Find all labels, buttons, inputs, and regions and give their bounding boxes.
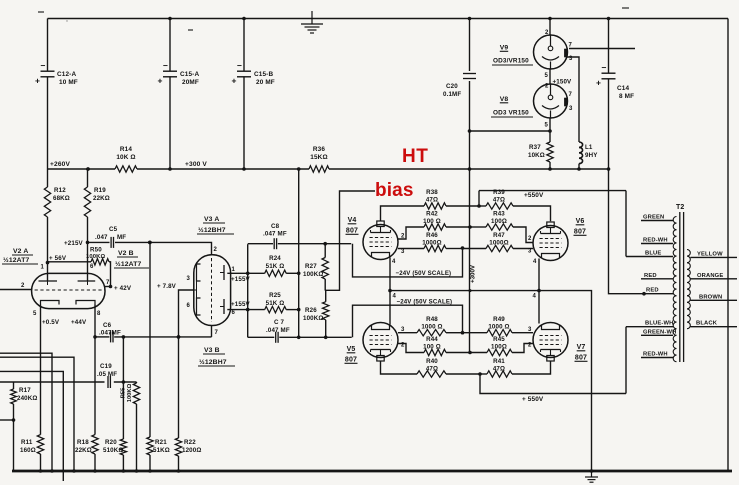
wire lead BLACK xyxy=(691,321,738,327)
wire V4 cathode pin 4 xyxy=(388,258,396,293)
tube V7 807 xyxy=(533,323,568,362)
wire cathode pin 5 xyxy=(33,305,87,435)
wire bottom grid feed xyxy=(353,305,465,337)
wire V9 pin7 lead xyxy=(569,48,635,50)
svg-text:RED: RED xyxy=(646,288,659,294)
resistor R17 xyxy=(0,382,38,471)
resistor R45 xyxy=(470,336,533,356)
svg-text:+300V: +300V xyxy=(470,264,477,283)
label V5 xyxy=(345,346,358,364)
svg-text:47Ω: 47Ω xyxy=(426,197,438,204)
wire V3 plate pin 1 xyxy=(227,272,250,284)
wire plate supply column xyxy=(247,244,249,337)
capacitor C5 xyxy=(88,226,150,248)
svg-text:½12AT7: ½12AT7 xyxy=(115,260,142,268)
svg-text:+300 V: +300 V xyxy=(185,161,207,168)
svg-text:8 MF: 8 MF xyxy=(619,93,634,100)
svg-text:+260V: +260V xyxy=(50,161,70,168)
svg-text:.047 MF: .047 MF xyxy=(266,327,290,334)
svg-text:RED-WH: RED-WH xyxy=(643,352,668,358)
wire top grid feed xyxy=(353,244,465,277)
svg-text:+: + xyxy=(596,78,601,88)
svg-text:68KΩ: 68KΩ xyxy=(53,195,70,202)
transformer T2 core xyxy=(676,204,684,362)
wire +550V bottom rail xyxy=(480,374,626,403)
svg-text:−24V (50V SCALE): −24V (50V SCALE) xyxy=(397,299,453,306)
svg-text:807: 807 xyxy=(345,357,357,364)
wire bias feed xyxy=(325,191,375,290)
svg-text:R11: R11 xyxy=(21,439,33,446)
svg-text:BLUE: BLUE xyxy=(645,251,661,257)
label V7 xyxy=(575,344,588,362)
svg-text:1000 Ω: 1000 Ω xyxy=(488,323,509,330)
svg-text:R19: R19 xyxy=(94,187,106,194)
resistor R22 xyxy=(175,335,201,473)
svg-text:3: 3 xyxy=(401,327,405,333)
svg-text:+0.5V: +0.5V xyxy=(42,319,60,326)
svg-text:R38: R38 xyxy=(426,189,438,196)
svg-text:47Ω: 47Ω xyxy=(493,197,505,204)
svg-text:R47: R47 xyxy=(493,232,505,239)
svg-text:R43: R43 xyxy=(493,211,505,218)
svg-text:C8: C8 xyxy=(271,223,280,230)
wire lead RED-WH bottom xyxy=(641,352,673,358)
svg-text:1000Ω: 1000Ω xyxy=(489,240,508,247)
svg-text:R46: R46 xyxy=(426,232,438,239)
svg-text:10 MF: 10 MF xyxy=(59,79,78,86)
wire stub B xyxy=(0,357,76,473)
node pin 7 +42V xyxy=(105,280,132,292)
svg-text:V3 B: V3 B xyxy=(204,347,220,354)
resistor R48 xyxy=(398,316,462,336)
tube V2 12AT7 xyxy=(32,273,105,308)
svg-text:BROWN: BROWN xyxy=(699,294,722,300)
svg-text:YELLOW: YELLOW xyxy=(697,251,723,257)
resistor R21 xyxy=(147,241,170,473)
svg-text:R40: R40 xyxy=(426,358,438,365)
svg-text:2: 2 xyxy=(528,343,532,349)
wire V2A plate pin 1 xyxy=(41,263,48,281)
wire +300V column to V3 loads xyxy=(297,169,301,339)
svg-text:ORANGE: ORANGE xyxy=(697,273,723,279)
wire V3A grid feed xyxy=(148,241,212,255)
label V3A xyxy=(197,216,234,234)
wire V2B plate drop xyxy=(87,242,89,281)
svg-text:R21: R21 xyxy=(155,439,167,446)
svg-text:1000Ω: 1000Ω xyxy=(422,240,441,247)
resistor R19 xyxy=(84,167,110,242)
svg-text:RED: RED xyxy=(644,273,657,279)
tube V3 12BH7 xyxy=(194,255,231,326)
svg-text:2: 2 xyxy=(528,236,532,242)
resistor R18 xyxy=(75,337,98,473)
ground stub xyxy=(585,471,598,482)
node +56V xyxy=(46,255,67,264)
wire V7 pin 4 xyxy=(533,291,540,324)
label V3 pins xyxy=(187,247,236,336)
svg-text:C6: C6 xyxy=(103,322,112,329)
svg-text:−: − xyxy=(602,63,607,73)
svg-text:−: − xyxy=(41,61,46,71)
wire lead YELLOW xyxy=(691,251,738,257)
capacitor C6 xyxy=(93,322,211,342)
svg-text:+215V: +215V xyxy=(64,240,84,247)
label -24V measure 1 xyxy=(396,270,452,277)
svg-text:RED-WH: RED-WH xyxy=(643,238,668,244)
svg-text:1000 Ω: 1000 Ω xyxy=(421,323,442,330)
wire +300V screen column xyxy=(468,169,476,354)
svg-text:R50: R50 xyxy=(90,247,102,254)
svg-text:5: 5 xyxy=(33,311,37,317)
resistor R50 xyxy=(48,247,110,271)
svg-text:2: 2 xyxy=(401,343,405,349)
label V3B xyxy=(198,347,235,366)
tube V4 807 xyxy=(363,221,398,260)
wire cathode pin 8 xyxy=(95,305,101,337)
wire V3 pin 7 stub xyxy=(211,326,213,337)
svg-text:C15-A: C15-A xyxy=(180,71,199,78)
scan marks xyxy=(38,8,629,30)
resistor R36 xyxy=(309,146,329,172)
capacitor C7 xyxy=(248,319,352,343)
svg-text:7: 7 xyxy=(569,43,573,49)
svg-text:R48: R48 xyxy=(426,316,438,323)
resistor R44 xyxy=(398,336,470,356)
svg-text:R17: R17 xyxy=(19,387,31,394)
resistor R47 xyxy=(462,232,533,255)
svg-text:R20: R20 xyxy=(105,439,117,446)
svg-text:3: 3 xyxy=(401,249,405,255)
svg-text:7: 7 xyxy=(569,92,573,98)
wire bottom ground bus xyxy=(12,470,732,473)
svg-text:GREEN: GREEN xyxy=(643,215,664,221)
wire V8 pin5 node xyxy=(468,118,552,142)
svg-text:240KΩ: 240KΩ xyxy=(17,395,38,402)
svg-text:+550V: +550V xyxy=(524,192,544,199)
svg-text:7: 7 xyxy=(215,330,219,336)
wire V3 cathode +7.8V xyxy=(157,283,194,337)
svg-text:MF: MF xyxy=(117,234,126,241)
wire lead RED-WH xyxy=(641,238,673,244)
svg-text:R25: R25 xyxy=(269,292,281,299)
wire V9 pin3 to V8 pin7 xyxy=(567,57,579,97)
svg-text:R12: R12 xyxy=(54,187,66,194)
label V4 xyxy=(346,217,359,235)
svg-text:.047: .047 xyxy=(95,234,108,241)
svg-text:½12BH7: ½12BH7 xyxy=(198,226,226,234)
svg-text:V5: V5 xyxy=(347,346,356,353)
wire lead BROWN xyxy=(691,294,738,300)
svg-text:47Ω: 47Ω xyxy=(426,365,438,372)
svg-text:+44V: +44V xyxy=(71,319,87,326)
wire lead GREEN xyxy=(641,215,673,221)
capacitor C20 xyxy=(443,19,476,170)
svg-text:100KΩ: 100KΩ xyxy=(303,315,324,322)
node +215V xyxy=(64,240,89,247)
svg-text:+: + xyxy=(232,76,237,86)
resistor R26 xyxy=(303,290,329,339)
svg-text:47Ω: 47Ω xyxy=(493,365,505,372)
wire stub A xyxy=(0,353,54,473)
svg-text:V6: V6 xyxy=(576,218,585,225)
svg-text:OD3 VR150: OD3 VR150 xyxy=(493,110,529,117)
svg-text:−24V (50V SCALE): −24V (50V SCALE) xyxy=(396,270,452,277)
svg-text:20 MF: 20 MF xyxy=(256,79,275,86)
wire R50 to grid pin 7 xyxy=(109,262,111,287)
svg-text:2: 2 xyxy=(21,283,25,289)
label V6 xyxy=(574,218,587,236)
svg-text:R14: R14 xyxy=(120,146,132,153)
svg-text:R49: R49 xyxy=(493,316,505,323)
svg-text:0.1MF: 0.1MF xyxy=(443,91,461,98)
capacitor C15-A xyxy=(158,19,200,171)
tube V9 OD3/VR150 xyxy=(492,19,573,80)
svg-text:22KΩ: 22KΩ xyxy=(75,447,92,454)
svg-text:BLUE-WH: BLUE-WH xyxy=(645,321,673,327)
svg-text:R18: R18 xyxy=(77,439,89,446)
label -24V measure 2 xyxy=(397,299,453,306)
svg-text:V4: V4 xyxy=(348,217,357,224)
svg-text:R22: R22 xyxy=(184,439,196,446)
wire right edge rail xyxy=(727,19,729,472)
wire input grid pin 2 xyxy=(0,283,32,290)
svg-text:9HY: 9HY xyxy=(585,152,598,159)
svg-text:V2 A: V2 A xyxy=(13,248,28,255)
svg-text:4: 4 xyxy=(392,259,396,265)
label V2A xyxy=(2,248,38,264)
label HT (red) xyxy=(402,146,428,167)
svg-text:+: + xyxy=(35,76,40,86)
svg-text:R24: R24 xyxy=(269,255,281,262)
resistor R20 xyxy=(103,382,127,473)
svg-text:½12AT7: ½12AT7 xyxy=(3,256,30,264)
svg-text:807: 807 xyxy=(346,228,358,235)
svg-text:5: 5 xyxy=(545,73,549,79)
svg-text:T2: T2 xyxy=(676,204,684,211)
wire +300V bus xyxy=(48,161,609,171)
resistor R43 xyxy=(470,211,533,243)
svg-text:1200Ω: 1200Ω xyxy=(182,447,201,454)
svg-text:51K Ω: 51K Ω xyxy=(266,263,285,270)
tube V6 807 xyxy=(533,222,568,261)
tube V5 807 xyxy=(363,323,398,362)
svg-text:51KΩ: 51KΩ xyxy=(153,447,170,454)
svg-text:7: 7 xyxy=(106,280,110,286)
resistor R37 xyxy=(528,142,553,169)
svg-text:V2 B: V2 B xyxy=(118,250,134,257)
svg-text:100 Ω: 100 Ω xyxy=(423,218,441,225)
svg-text:4: 4 xyxy=(533,259,537,265)
svg-text:100Ω: 100Ω xyxy=(491,344,507,351)
capacitor C15-B xyxy=(232,19,275,171)
transformer T2 primary winding xyxy=(673,217,676,362)
svg-text:−: − xyxy=(237,61,242,71)
svg-text:C15-B: C15-B xyxy=(254,71,273,78)
svg-text:510KΩ: 510KΩ xyxy=(103,447,124,454)
svg-text:+ 7.8V: + 7.8V xyxy=(157,283,177,290)
capacitor C8 xyxy=(248,223,352,249)
svg-text:100KΩ: 100KΩ xyxy=(303,271,324,278)
resistor R24 xyxy=(248,255,301,277)
wire V6 cathode pin 4 xyxy=(533,259,541,293)
svg-text:C19: C19 xyxy=(100,363,112,370)
wire stub C xyxy=(0,371,63,481)
svg-text:2: 2 xyxy=(214,247,218,253)
wire V3 plate pin 6 xyxy=(227,301,250,311)
svg-text:807: 807 xyxy=(575,355,587,362)
svg-text:15KΩ: 15KΩ xyxy=(310,154,327,161)
svg-text:.05 MF: .05 MF xyxy=(97,371,117,378)
svg-text:R39: R39 xyxy=(493,189,505,196)
tube V8 OD3 VR150 xyxy=(491,69,573,129)
svg-text:2: 2 xyxy=(545,84,549,90)
resistor R27 xyxy=(303,244,328,291)
svg-text:R36: R36 xyxy=(313,146,325,153)
svg-text:8: 8 xyxy=(97,311,101,317)
svg-text:R55: R55 xyxy=(121,387,127,398)
svg-text:−: − xyxy=(163,61,168,71)
ground xyxy=(301,11,323,33)
svg-text:3: 3 xyxy=(187,276,191,282)
svg-text:GREEN-WH: GREEN-WH xyxy=(643,330,676,336)
svg-text:V9: V9 xyxy=(500,45,509,52)
wire top bus xyxy=(48,17,729,21)
svg-text:C 7: C 7 xyxy=(274,319,284,326)
resistor R25 xyxy=(248,292,301,313)
svg-text:R26: R26 xyxy=(305,307,317,314)
svg-text:100Ω: 100Ω xyxy=(491,218,507,225)
svg-text:C20: C20 xyxy=(446,83,458,90)
resistor R42 xyxy=(398,211,472,240)
svg-text:R42: R42 xyxy=(426,211,438,218)
resistor R46 xyxy=(398,232,462,255)
svg-text:R45: R45 xyxy=(493,336,505,343)
resistor R40 xyxy=(381,358,482,377)
svg-text:OD3/VR150: OD3/VR150 xyxy=(493,58,529,65)
svg-text:6: 6 xyxy=(90,264,94,270)
svg-text:22KΩ: 22KΩ xyxy=(93,195,110,202)
svg-text:5: 5 xyxy=(545,123,549,129)
svg-text:+ 42V: + 42V xyxy=(114,285,132,292)
svg-text:HT: HT xyxy=(402,146,428,167)
svg-text:1: 1 xyxy=(232,267,236,273)
resistor R12 xyxy=(44,169,70,263)
resistor R14 xyxy=(115,146,137,172)
svg-text:+150V: +150V xyxy=(553,79,573,86)
wire V5 pin 4 xyxy=(390,291,397,325)
svg-text:+: + xyxy=(158,76,163,86)
svg-text:R41: R41 xyxy=(493,358,505,365)
svg-text:6: 6 xyxy=(232,310,236,316)
svg-text:V3 A: V3 A xyxy=(204,216,219,223)
svg-text:1: 1 xyxy=(41,265,45,271)
wire lead BLUE from +550V xyxy=(626,191,673,257)
svg-text:C5: C5 xyxy=(109,226,118,233)
svg-text:160Ω: 160Ω xyxy=(20,447,36,454)
svg-text:6: 6 xyxy=(187,303,191,309)
svg-text:½12BH7: ½12BH7 xyxy=(199,358,227,366)
inductor L1 xyxy=(579,97,598,169)
svg-text:bias: bias xyxy=(375,180,414,201)
svg-text:10KΩ: 10KΩ xyxy=(528,152,545,159)
resistor R55 xyxy=(121,382,140,473)
wire lead BLUE-WH from +550V xyxy=(626,321,673,394)
svg-text:.047 MF: .047 MF xyxy=(263,231,287,238)
svg-text:4: 4 xyxy=(533,294,537,300)
wire cathode return xyxy=(390,289,593,473)
capacitor C14 xyxy=(596,17,634,290)
svg-text:3: 3 xyxy=(528,327,532,333)
resistor R38 xyxy=(381,189,480,221)
svg-text:L1: L1 xyxy=(585,144,593,151)
svg-text:20MF: 20MF xyxy=(182,79,199,86)
svg-text:+ 550V: + 550V xyxy=(522,396,544,403)
label bias (red) xyxy=(375,180,414,201)
wire lead GREEN-WH xyxy=(641,330,676,336)
svg-text:BLACK: BLACK xyxy=(696,321,718,327)
wire lead RED center tap xyxy=(609,288,674,296)
resistor R41 xyxy=(480,358,551,377)
svg-text:807: 807 xyxy=(574,229,586,236)
svg-text:2: 2 xyxy=(401,234,405,240)
resistor R11 xyxy=(20,435,44,473)
svg-text:C14: C14 xyxy=(617,85,629,92)
capacitor C12-A xyxy=(35,19,78,170)
wire lead RED xyxy=(641,273,673,279)
svg-text:R37: R37 xyxy=(529,144,541,151)
capacitor C19 xyxy=(0,363,137,388)
wire C6 junction drop xyxy=(122,337,124,382)
svg-text:V8: V8 xyxy=(500,96,509,103)
svg-text:51K Ω: 51K Ω xyxy=(266,300,285,307)
svg-text:10K Ω: 10K Ω xyxy=(116,154,135,161)
label V2B xyxy=(114,250,149,268)
svg-text:V7: V7 xyxy=(577,344,586,351)
wire lead ORANGE xyxy=(691,273,738,279)
svg-text:2: 2 xyxy=(545,30,549,36)
resistor R39 xyxy=(479,189,551,221)
svg-text:100KΩ: 100KΩ xyxy=(127,383,133,402)
svg-text:R44: R44 xyxy=(426,336,438,343)
svg-text:3: 3 xyxy=(528,249,532,255)
svg-text:+ 56V: + 56V xyxy=(49,255,67,262)
svg-text:.047MF: .047MF xyxy=(99,330,121,337)
resistor R49 xyxy=(462,316,533,336)
svg-text:100KΩ: 100KΩ xyxy=(86,254,105,260)
svg-text:C12-A: C12-A xyxy=(57,71,76,78)
svg-text:3: 3 xyxy=(569,106,573,112)
wire +550V top rail xyxy=(477,191,626,208)
svg-text:R27: R27 xyxy=(305,263,317,270)
transformer T2 secondary winding xyxy=(687,250,690,329)
svg-text:100 Ω: 100 Ω xyxy=(423,344,441,351)
